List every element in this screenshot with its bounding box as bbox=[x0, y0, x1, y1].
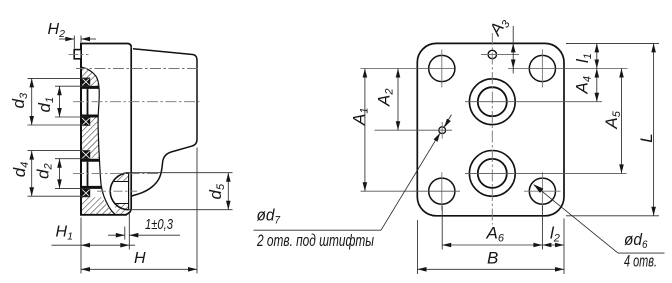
bottom hole row line bbox=[361, 190, 461, 192]
d5 dimension line bbox=[227, 173, 229, 210]
d5 hole bottom edge bbox=[115, 203, 129, 205]
O-ring seal port1 bottom bbox=[82, 118, 91, 126]
port d2: counterbore lines in channel bbox=[87, 162, 89, 186]
hatched flange section: right of port2 top seal bbox=[90, 150, 100, 158]
A6 extension lines bbox=[441, 206, 443, 250]
d4 dimension line bbox=[31, 151, 33, 197]
d5 port semicircle bbox=[110, 173, 128, 210]
hatched flange section: bottom block with d5 arc cutout bbox=[81, 197, 115, 215]
B dimension line bbox=[418, 268, 565, 270]
L top extension bbox=[566, 42, 659, 44]
port 2 inner circle bbox=[478, 159, 507, 188]
d6 leader shelf bbox=[618, 252, 665, 254]
H extension lines bbox=[80, 218, 82, 274]
d7 leader with diameter arrows bbox=[381, 134, 440, 230]
port 2 outer circle bbox=[469, 151, 515, 197]
d4 extension lines bbox=[28, 150, 91, 152]
A6 and l2 dimension line bbox=[442, 244, 564, 246]
d1 dimension line bbox=[59, 86, 61, 117]
port 1 inner circle bbox=[478, 87, 507, 116]
d5 extension lines bbox=[127, 172, 233, 174]
A3 dimension line bbox=[512, 26, 514, 74]
corner holes vertical centerlines bbox=[441, 50, 443, 88]
svg-text:2 отв. под штифты: 2 отв. под штифты bbox=[256, 231, 374, 250]
port1 row line bbox=[465, 101, 602, 103]
hatched segment inside d5 arc bottom bbox=[115, 204, 129, 210]
corner hole bottom-left bbox=[429, 178, 455, 204]
d2 extension lines bbox=[55, 158, 89, 160]
hatched sliver under d5 arc bbox=[115, 204, 129, 215]
port d1: hole top edge bbox=[80, 86, 99, 89]
dowel vertical centerline bbox=[441, 122, 443, 139]
svg-text:1±0,3: 1±0,3 bbox=[145, 216, 173, 233]
port d1: hole bottom edge bbox=[80, 115, 98, 118]
hatched flange section: block between ports bbox=[81, 118, 100, 151]
boss (pin) on face top bbox=[74, 50, 81, 59]
1±0,3 extension lines bbox=[124, 227, 126, 240]
port d2: hole top edge bbox=[80, 159, 100, 162]
A2 dimension line bbox=[397, 69, 399, 131]
l1 and A4 dimension line bbox=[596, 43, 598, 101]
H2 extension lines bbox=[73, 36, 75, 49]
flange face line bbox=[80, 44, 82, 215]
d7 leader shelf bbox=[254, 229, 382, 231]
body side profile curve (bell shape) bbox=[81, 67, 116, 215]
A1 dimension line bbox=[364, 69, 366, 192]
B left extension bbox=[417, 220, 419, 274]
d1 extension lines bbox=[55, 85, 89, 87]
l2 / B right extension bbox=[563, 219, 565, 275]
d6 leader bbox=[534, 185, 618, 253]
port2 row line bbox=[465, 172, 627, 174]
L dimension line bbox=[653, 43, 655, 215]
dowel pin hole d7 bbox=[439, 127, 446, 134]
small hole horizontal centerline bbox=[481, 54, 519, 56]
H2 dimension line and arrows bbox=[59, 38, 74, 40]
svg-text:B: B bbox=[487, 249, 498, 268]
flange bottom edge bbox=[80, 214, 127, 216]
tapered body outline with right edge and S-curve bbox=[131, 49, 197, 197]
port 1 outer circle bbox=[469, 79, 515, 125]
hatched segment inside d5 arc top bbox=[114, 173, 129, 182]
top hole row line right segment bbox=[508, 68, 628, 70]
d2 dimension line bbox=[59, 159, 61, 189]
d3 dimension line bbox=[31, 78, 33, 125]
svg-text:H: H bbox=[134, 250, 146, 267]
corner hole bottom-right d6 bbox=[529, 178, 555, 204]
hatched flange section: top quarter-round bbox=[81, 67, 99, 86]
O-ring seal port2 bottom bbox=[82, 189, 91, 197]
main vertical centerline bbox=[491, 33, 493, 225]
flange back line with bottom hook bbox=[126, 47, 131, 214]
centerline boss axis bbox=[69, 53, 89, 55]
centerline bottom hole row / d5 axis bbox=[97, 190, 137, 192]
corner hole top-right bbox=[529, 55, 555, 81]
H1 dimension line bbox=[52, 244, 136, 246]
H dimension line bbox=[81, 268, 197, 270]
centerline port2 axis bbox=[73, 172, 158, 174]
centerline port1 axis bbox=[73, 101, 200, 103]
A5 dimension line bbox=[621, 69, 623, 174]
centerline top hole row bbox=[76, 68, 199, 70]
port d2: hole bottom edge bbox=[80, 186, 101, 189]
body top edge with corner bbox=[80, 44, 131, 48]
d5 hole top edge bbox=[114, 181, 129, 183]
corner hole top-left bbox=[429, 55, 455, 81]
svg-text:L: L bbox=[637, 133, 656, 142]
O-ring seal port2 top bbox=[82, 151, 91, 159]
svg-text:4 отв.: 4 отв. bbox=[624, 252, 657, 271]
small hole A3 bbox=[488, 50, 496, 58]
top hole row line left segment bbox=[361, 68, 455, 70]
dowel row line bbox=[375, 129, 453, 131]
L bottom extension bbox=[566, 215, 659, 217]
d5 port chord line bbox=[128, 173, 130, 210]
d3 extension lines bbox=[28, 77, 91, 79]
flange plate outline bbox=[417, 43, 564, 215]
1±0,3 dimension line and outside arrows bbox=[108, 234, 125, 236]
port d1: counterbore lines in channel bbox=[87, 89, 89, 115]
O-ring seal port1 top bbox=[82, 78, 91, 86]
